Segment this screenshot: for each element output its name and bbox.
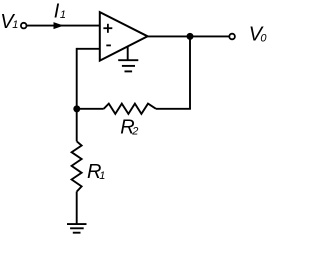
- svg-text:2: 2: [131, 126, 138, 138]
- label R2: [120, 117, 138, 139]
- output terminal V0: [229, 34, 235, 40]
- resistor R2: [104, 104, 156, 114]
- svg-text:1: 1: [12, 19, 18, 31]
- wire to inverting input: [77, 48, 100, 50]
- junction output node: [187, 33, 194, 40]
- svg-text:1: 1: [99, 170, 105, 182]
- wire output: [148, 35, 230, 37]
- svg-text:1: 1: [60, 9, 66, 21]
- op-amp U1: [100, 12, 148, 61]
- wire inverting input down to node: [76, 48, 78, 109]
- input terminal V1: [21, 23, 27, 29]
- wire feedback horizontal (R2 right lead): [156, 108, 191, 110]
- ground op-amp: [118, 46, 138, 71]
- resistor R1: [72, 141, 82, 191]
- wire R2 left lead: [77, 108, 104, 110]
- ground bottom: [67, 224, 87, 233]
- label I1: [54, 1, 66, 23]
- svg-text:I: I: [54, 1, 60, 23]
- wire R1 bottom lead: [76, 192, 78, 225]
- node junction (inverting node): [73, 105, 80, 112]
- op-amp plus marking: [103, 24, 112, 33]
- arrowhead I1: [54, 22, 64, 29]
- label V1: [0, 11, 18, 33]
- op-amp minus marking: [106, 44, 111, 46]
- wire feedback vertical: [189, 36, 191, 108]
- wire R1 top lead: [76, 109, 78, 142]
- label R1: [87, 161, 105, 183]
- label V0: [249, 24, 268, 46]
- wire input (+): [27, 25, 100, 27]
- svg-text:0: 0: [260, 33, 267, 45]
